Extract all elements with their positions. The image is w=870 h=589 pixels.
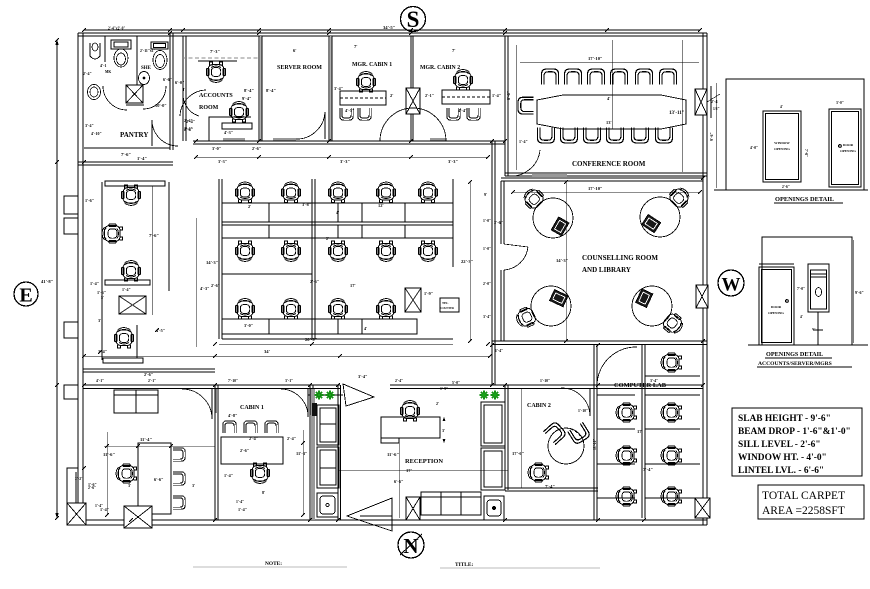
workstation chair r2c3 <box>328 241 347 261</box>
svg-text:9'-6": 9'-6" <box>855 290 864 295</box>
svg-text:3'-4": 3'-4" <box>85 123 94 128</box>
svg-text:1'-4": 1'-4" <box>236 500 244 504</box>
svg-text:5'-0": 5'-0" <box>452 381 460 385</box>
svg-text:3'-4": 3'-4" <box>483 315 491 319</box>
svg-text:8'-6": 8'-6" <box>506 91 511 100</box>
svg-text:4'-8": 4'-8" <box>228 413 238 418</box>
dim ticks: top line <box>82 28 702 32</box>
wall: toilet stall divider 1 <box>104 36 106 62</box>
svg-text:6'-6": 6'-6" <box>163 77 172 82</box>
computer lab desk divider <box>642 345 645 518</box>
dimension: top 34-5 <box>84 29 700 31</box>
svg-text:2'-6": 2'-6" <box>240 448 249 453</box>
svg-text:12': 12' <box>378 203 384 208</box>
svg-text:9': 9' <box>484 192 487 197</box>
dim ticks: office lines <box>82 342 492 358</box>
svg-text:1'-4": 1'-4" <box>238 507 247 512</box>
WC 1 cistern <box>111 40 131 49</box>
plants cabin1 <box>315 391 335 400</box>
notes box <box>732 408 862 476</box>
svg-text:TOTAL CARPET: TOTAL CARPET <box>762 490 845 502</box>
left room table <box>138 443 171 514</box>
workstation chair r2c4 <box>376 241 395 261</box>
svg-text:2'-6": 2'-6" <box>310 279 319 284</box>
counselling dim line <box>565 182 567 341</box>
svg-text:2'-4": 2'-4" <box>186 119 195 124</box>
svg-text:13'-10": 13'-10" <box>593 439 597 450</box>
svg-text:COUNSELLING ROOM: COUNSELLING ROOM <box>582 254 658 262</box>
svg-text:OPENINGS DETAIL: OPENINGS DETAIL <box>775 196 834 203</box>
accounts desk 2 <box>222 123 252 129</box>
svg-text:4': 4' <box>364 326 367 331</box>
right wall column xbox <box>695 89 707 115</box>
workstation chair r3c1 <box>235 299 254 319</box>
dim ticks: corridor line <box>194 155 490 159</box>
mgr2 desk <box>442 90 490 104</box>
WC 2 bowl <box>153 51 167 70</box>
she basin <box>139 72 150 85</box>
cabin2 door arc <box>561 388 590 416</box>
svg-text:3'-0": 3'-0" <box>244 323 253 328</box>
svg-text:TEL: TEL <box>442 301 448 305</box>
svg-text:6'-0": 6'-0" <box>175 80 185 85</box>
workstation chair r2c1 <box>235 241 254 261</box>
counselling table 3 <box>513 286 571 330</box>
wall: right outer <box>703 33 707 525</box>
left room exec chair <box>116 464 136 483</box>
WC 2 cistern (SHE) <box>151 42 168 49</box>
svg-text:MGR. CABIN 2: MGR. CABIN 2 <box>420 65 460 71</box>
bottom wall column xbox <box>406 497 420 520</box>
svg-text:3': 3' <box>192 483 195 488</box>
svg-text:2'-4": 2'-4" <box>287 436 296 441</box>
workstation chair r1c3 <box>328 182 347 202</box>
left column xbox <box>119 296 146 314</box>
wall: bottom outer <box>78 520 707 525</box>
svg-text:RECEPTION: RECEPTION <box>405 458 443 465</box>
tel counter column xbox <box>405 288 421 312</box>
svg-text:ROOM: ROOM <box>199 105 219 111</box>
svg-text:1'-4": 1'-4" <box>495 349 503 353</box>
reception end table <box>484 496 504 520</box>
reception chair <box>400 401 419 421</box>
compass W <box>718 270 744 296</box>
svg-text:SHE: SHE <box>141 66 152 71</box>
wall: cabin1 right <box>310 385 313 520</box>
detail2 cabinet <box>808 264 829 312</box>
svg-text:1'-4": 1'-4" <box>90 281 99 286</box>
svg-text:11'-6": 11'-6" <box>103 452 115 457</box>
reception desk <box>381 417 440 443</box>
left wing inner wall <box>101 182 103 360</box>
workstation chair r1c1 <box>235 182 254 202</box>
svg-text:BEAM DROP - 1'-6"&1'-0": BEAM DROP - 1'-6"&1'-0" <box>738 427 851 437</box>
svg-text:3'-4": 3'-4" <box>334 86 343 91</box>
column xbox between cabins <box>406 88 420 114</box>
svg-text:6'-6": 6'-6" <box>394 479 404 484</box>
mgr1 guest chairs <box>340 108 353 120</box>
svg-text:2'-1": 2'-1" <box>425 93 434 98</box>
left chair 4 <box>114 328 133 348</box>
svg-text:20'-9": 20'-9" <box>305 337 318 342</box>
svg-text:4': 4' <box>800 315 803 319</box>
compass S <box>401 7 426 33</box>
svg-text:2'-4: 2'-4 <box>711 99 717 104</box>
svg-text:WINDOW: WINDOW <box>774 141 790 145</box>
svg-text:7'-4": 7'-4" <box>643 467 653 472</box>
svg-text:17': 17' <box>637 429 643 434</box>
svg-text:6'-6": 6'-6" <box>154 477 164 482</box>
wall: pantry bottom <box>78 162 173 165</box>
reception dim line horizontal <box>339 469 508 471</box>
wall: counselling left lower <box>501 270 504 341</box>
svg-text:2'-1": 2'-1" <box>148 379 156 383</box>
conference chairs bottom <box>537 127 554 142</box>
svg-text:13': 13' <box>606 120 612 125</box>
svg-text:3'-3": 3'-3" <box>448 159 458 164</box>
svg-text:PANTRY: PANTRY <box>120 131 148 139</box>
door threshold gray <box>273 138 296 141</box>
wall: computer lab left <box>594 345 597 520</box>
wall: corridor right of open office <box>492 141 495 385</box>
compass E <box>14 282 38 307</box>
dim ticks: counselling <box>511 180 702 343</box>
svg-text:17'-6": 17'-6" <box>512 451 525 456</box>
wall: left outer <box>78 33 83 525</box>
pantry counter line <box>84 147 170 149</box>
svg-text:4'-5": 4'-5" <box>345 108 355 113</box>
svg-text:2'-0": 2'-0" <box>483 282 491 286</box>
accounts chair 2 <box>229 102 248 122</box>
svg-text:7'-3": 7'-3" <box>210 49 220 54</box>
desk band A row1 <box>222 203 453 222</box>
svg-text:4': 4' <box>247 311 250 316</box>
wall: accounts left <box>183 36 186 141</box>
dim ticks bottom rooms <box>105 441 305 517</box>
conference table <box>537 95 686 129</box>
svg-text:3': 3' <box>98 318 101 323</box>
svg-text:2'-11"x1': 2'-11"x1' <box>140 49 155 53</box>
counselling table 4 <box>632 286 686 337</box>
svg-text:3'-3": 3'-3" <box>340 159 350 164</box>
svg-text:7'-4": 7'-4" <box>545 484 555 489</box>
svg-text:7'-6": 7'-6" <box>121 152 131 157</box>
detail2 dims <box>852 240 854 343</box>
svg-text:2'-6": 2'-6" <box>144 372 153 377</box>
svg-text:OPENING: OPENING <box>768 311 784 315</box>
svg-text:34': 34' <box>264 349 270 354</box>
cabin2 guest chair 2 <box>568 422 591 445</box>
wall: toilet stall divider 2 <box>136 36 138 86</box>
wall: server right <box>329 36 332 141</box>
bottom-left corner inset <box>67 468 83 503</box>
svg-text:COUNTER: COUNTER <box>441 307 454 310</box>
desk band B row2 <box>222 225 453 238</box>
svg-text:7'-0": 7'-0" <box>797 287 805 291</box>
svg-text:1'-10": 1'-10" <box>540 379 550 383</box>
svg-text:11'-3": 11'-3" <box>296 451 307 456</box>
open office right desk edge <box>452 179 454 267</box>
cabin1 door arc <box>281 389 308 417</box>
svg-text:MGR. CABIN 1: MGR. CABIN 1 <box>352 62 392 68</box>
wardrobe strip <box>317 405 339 488</box>
conference dim lines <box>515 45 517 170</box>
left chair 2 <box>102 224 122 243</box>
svg-text:CONFERENCE ROOM: CONFERENCE ROOM <box>572 160 646 168</box>
reception bottom triangle <box>347 498 392 531</box>
workstation chair r3c4 <box>376 299 395 319</box>
svg-text:3'-1": 3'-1" <box>285 379 293 383</box>
svg-text:8'-4": 8'-4" <box>244 88 254 93</box>
svg-text:COMPUTER LAB: COMPUTER LAB <box>614 382 667 389</box>
svg-text:14'-3": 14'-3" <box>556 258 569 263</box>
bottom-left corner column xbox <box>67 503 86 525</box>
svg-text:2': 2' <box>248 204 251 209</box>
svg-text:17'-10": 17'-10" <box>588 56 603 61</box>
computer lab door arc <box>597 347 637 385</box>
left desk 4 <box>103 358 143 363</box>
wall: reception left <box>338 385 341 520</box>
right wall leader <box>707 86 720 118</box>
big door arc cabins <box>380 108 446 141</box>
svg-text:E: E <box>19 285 32 307</box>
svg-text:10'-0": 10'-0" <box>155 103 167 108</box>
svg-text:3'-4": 3'-4" <box>358 374 368 379</box>
toilet door arc right <box>143 86 166 109</box>
svg-text:DOOR: DOOR <box>843 143 854 147</box>
svg-text:ACCOUNTS/SERVER/MGRS: ACCOUNTS/SERVER/MGRS <box>758 361 832 367</box>
beam dashed line <box>182 57 258 59</box>
svg-text:2'-6": 2'-6" <box>211 283 220 288</box>
svg-text:3'-0": 3'-0" <box>836 101 844 105</box>
svg-text:TITLE:: TITLE: <box>455 562 473 568</box>
svg-text:4'-10": 4'-10" <box>91 131 102 136</box>
wall: bottom rooms top y385 <box>83 385 340 389</box>
svg-text:OPENING: OPENING <box>840 149 856 153</box>
openings detail 1 frame <box>714 79 868 190</box>
svg-text:SERVER ROOM: SERVER ROOM <box>277 65 322 71</box>
svg-text:1'-9": 1'-9" <box>424 291 433 296</box>
left desk 1 <box>105 181 165 186</box>
svg-text:2': 2' <box>326 236 329 241</box>
cabin2 dim line <box>520 388 522 488</box>
svg-text:N: N <box>403 534 418 558</box>
cabin1 guest chairs <box>223 421 236 433</box>
server door arc <box>295 112 325 139</box>
svg-text:2'-6": 2'-6" <box>252 146 261 151</box>
accounts door arc <box>183 88 199 116</box>
cabin2 wardrobes <box>481 402 505 490</box>
svg-text:S: S <box>407 7 420 32</box>
corridor dim line <box>196 156 488 158</box>
open office block frame <box>219 179 222 339</box>
svg-text:9": 9" <box>812 327 816 331</box>
svg-text:2'-4": 2'-4" <box>249 436 258 441</box>
mgr2 guest chairs <box>447 108 460 120</box>
svg-text:3': 3' <box>128 483 131 488</box>
wall above column <box>411 36 413 88</box>
detail1 window opening <box>763 111 801 182</box>
urinal <box>90 43 100 59</box>
detail1 door opening <box>829 109 861 187</box>
svg-text:3': 3' <box>442 428 445 433</box>
detail2 top line <box>759 263 794 265</box>
svg-text:22'-3": 22'-3" <box>461 259 474 264</box>
svg-text:ACCOUNTS: ACCOUNTS <box>199 93 233 99</box>
accounts desk 1 <box>198 60 237 62</box>
wall: corridor y141 <box>193 141 505 144</box>
svg-text:1'-4": 1'-4" <box>224 473 233 478</box>
svg-text:7'-6": 7'-6" <box>149 233 159 238</box>
WC 1 bowl <box>114 49 128 67</box>
left room sofa <box>114 390 158 413</box>
svg-text:1'-4": 1'-4" <box>492 93 501 98</box>
svg-text:CABIN 1: CABIN 1 <box>240 405 264 411</box>
total carpet box <box>758 485 864 519</box>
wall: top outer <box>78 33 707 36</box>
svg-text:1'-6": 1'-6" <box>85 198 94 203</box>
svg-text:4': 4' <box>607 96 610 101</box>
counselling door arc <box>504 244 528 247</box>
svg-text:7': 7' <box>452 48 456 53</box>
wall: counselling top <box>501 178 703 181</box>
wall: cabin2 left <box>505 385 508 490</box>
svg-text:1'-4": 1'-4" <box>122 287 131 292</box>
left room chairs <box>173 448 185 461</box>
svg-text:4'-1": 4'-1" <box>96 379 104 383</box>
cabin2 guest chair 1 <box>543 421 566 445</box>
svg-text:W: W <box>722 275 741 296</box>
workstation chair r2c5 <box>418 241 437 261</box>
svg-text:2': 2' <box>390 93 393 98</box>
workstation chair r1c4 <box>376 182 395 202</box>
cabin2 round table <box>548 428 584 464</box>
svg-text:3'-0": 3'-0" <box>212 146 221 151</box>
openings detail 2 frame <box>748 237 868 345</box>
conference door arc <box>508 150 540 176</box>
computer lab desk lines right col <box>645 375 700 377</box>
wall: conference left <box>505 36 508 176</box>
pantry door arc <box>152 120 178 146</box>
svg-text:WINDOW HT. - 4'-0": WINDOW HT. - 4'-0" <box>738 453 827 463</box>
conference gray threshold <box>532 174 567 177</box>
corridor door arc <box>180 90 206 116</box>
svg-text:41'-8": 41'-8" <box>41 279 54 284</box>
counselling table 2 <box>640 184 693 237</box>
cabin1 desk <box>221 437 283 464</box>
wall: left room right <box>215 385 218 520</box>
svg-text:3'-3": 3'-3" <box>218 159 227 164</box>
svg-text:11'-6": 11'-6" <box>387 452 399 457</box>
computer lab desk lines left col <box>597 394 635 396</box>
svg-text:2'-2": 2'-2" <box>75 477 83 481</box>
detail1 dims <box>715 83 717 188</box>
mgr1 desk <box>340 91 386 105</box>
svg-text:8': 8' <box>262 490 265 495</box>
svg-text:1'-4": 1'-4" <box>95 504 103 508</box>
wall: accounts notch <box>209 117 251 141</box>
svg-text:4'-1: 4'-1 <box>100 63 106 68</box>
wall: counselling left upper <box>501 181 504 244</box>
svg-text:4'-0": 4'-0" <box>750 146 758 150</box>
svg-text:14'-3": 14'-3" <box>206 260 219 265</box>
svg-text:1'-4": 1'-4" <box>519 139 528 144</box>
svg-text:1/2": 1/2" <box>713 107 720 111</box>
counselling right column xbox <box>696 285 708 308</box>
svg-text:7'-0": 7'-0" <box>804 149 808 157</box>
svg-text:2'-4": 2'-4" <box>83 71 92 76</box>
accounts chair 1 <box>206 62 225 82</box>
wall: cabin2 bottom <box>505 488 598 491</box>
dimension: left 41-8 <box>56 40 58 518</box>
desk band C row3 <box>222 319 417 334</box>
left room door arc <box>182 389 212 419</box>
workstation chair r3c3 <box>328 299 347 319</box>
svg-text:2'-4"x2'-0": 2'-4"x2'-0" <box>108 27 125 31</box>
counselling table 1 <box>520 185 573 238</box>
left wash basin <box>88 85 101 100</box>
svg-text:SLAB HEIGHT - 9'-6": SLAB HEIGHT - 9'-6" <box>738 414 831 424</box>
bottom room dim lines <box>106 432 108 515</box>
svg-text:6': 6' <box>293 48 297 53</box>
shower xbox <box>126 85 143 103</box>
workstation chair r1c2 <box>281 182 300 202</box>
compass N <box>398 532 424 558</box>
cabin1 chair <box>250 463 269 483</box>
svg-text:1'-10": 1'-10" <box>578 409 588 413</box>
workstation chair r3c2 <box>281 299 300 319</box>
svg-text:2': 2' <box>436 401 439 406</box>
svg-text:17'-10": 17'-10" <box>588 186 603 191</box>
sink unit <box>317 493 338 517</box>
svg-text:CABIN 2: CABIN 2 <box>527 403 551 409</box>
svg-text:AND LIBRARY: AND LIBRARY <box>582 266 631 274</box>
reception top marker triangle <box>343 384 374 406</box>
conference chair left end <box>518 97 533 114</box>
gray thresholds corridor <box>223 138 245 141</box>
wall: counselling bottom <box>492 341 707 345</box>
svg-text:2'-6": 2'-6" <box>782 185 790 189</box>
wardrobe strip gray wall <box>311 389 315 520</box>
computer lab chairs right col <box>661 353 681 372</box>
compass S axis tick <box>412 42 414 50</box>
left wing bottom wall <box>83 369 215 372</box>
svg-text:SILL LEVEL - 2'-6": SILL LEVEL - 2'-6" <box>738 440 821 450</box>
svg-text:4': 4' <box>336 210 339 215</box>
left wing dim line <box>151 186 153 315</box>
svg-text:1'-0": 1'-0" <box>483 247 491 251</box>
conference chairs top <box>542 69 559 84</box>
svg-text:1'-4": 1'-4" <box>137 156 147 161</box>
svg-text:8'-4": 8'-4" <box>266 88 276 93</box>
reception dim line vertical <box>398 443 400 518</box>
wall: conference bottom <box>505 173 707 176</box>
workstation chair r1c5 <box>418 182 437 202</box>
row2 under line <box>222 273 312 275</box>
svg-text:MK: MK <box>105 70 111 74</box>
svg-text:LINTEL LVL. - 6'-6": LINTEL LVL. - 6'-6" <box>738 466 824 476</box>
plants cabin2 <box>480 391 500 400</box>
svg-text:17': 17' <box>350 283 356 288</box>
workstation chair r2c2 <box>281 241 300 261</box>
svg-text:7': 7' <box>354 44 358 49</box>
svg-text:2'-4": 2'-4" <box>395 379 403 383</box>
svg-text:1'-6": 1'-6" <box>97 290 106 295</box>
reception bottom sofa <box>421 492 481 515</box>
svg-text:1'-0": 1'-0" <box>483 219 491 223</box>
mgr1 chair <box>356 72 375 92</box>
svg-text:9'-4": 9'-4" <box>242 96 252 101</box>
